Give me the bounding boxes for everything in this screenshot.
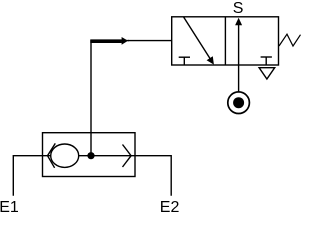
flow direction arrow on wire <box>90 39 122 43</box>
svg-text:E2: E2 <box>160 199 180 214</box>
spring return <box>279 34 301 46</box>
valve S position divider <box>224 17 226 65</box>
compressed air source <box>228 92 250 114</box>
shuttle valve (OR) body <box>43 133 136 177</box>
node at shuttle valve outlet <box>87 152 94 159</box>
shuttle valve right seat <box>123 145 132 168</box>
wire shuttle valve outlet junction to valve S left port <box>91 41 129 156</box>
svg-text:S: S <box>233 0 244 17</box>
3/2-way valve S body <box>172 17 279 65</box>
shuttle valve left seat <box>48 143 56 167</box>
shuttle valve ball <box>51 144 79 167</box>
wire E1 to shuttle valve left inlet <box>13 156 50 196</box>
wire shuttle valve right inlet to E2 <box>79 156 171 196</box>
valve S right position flow arrow up <box>238 25 240 92</box>
valve S right position blocked port T <box>261 56 272 58</box>
wire into valve S left port <box>128 40 172 42</box>
exhaust silencer triangle <box>259 68 275 79</box>
svg-text:E1: E1 <box>0 199 19 214</box>
valve S left position crossed flow arrow <box>184 17 210 59</box>
valve S left position blocked port T <box>179 56 190 58</box>
